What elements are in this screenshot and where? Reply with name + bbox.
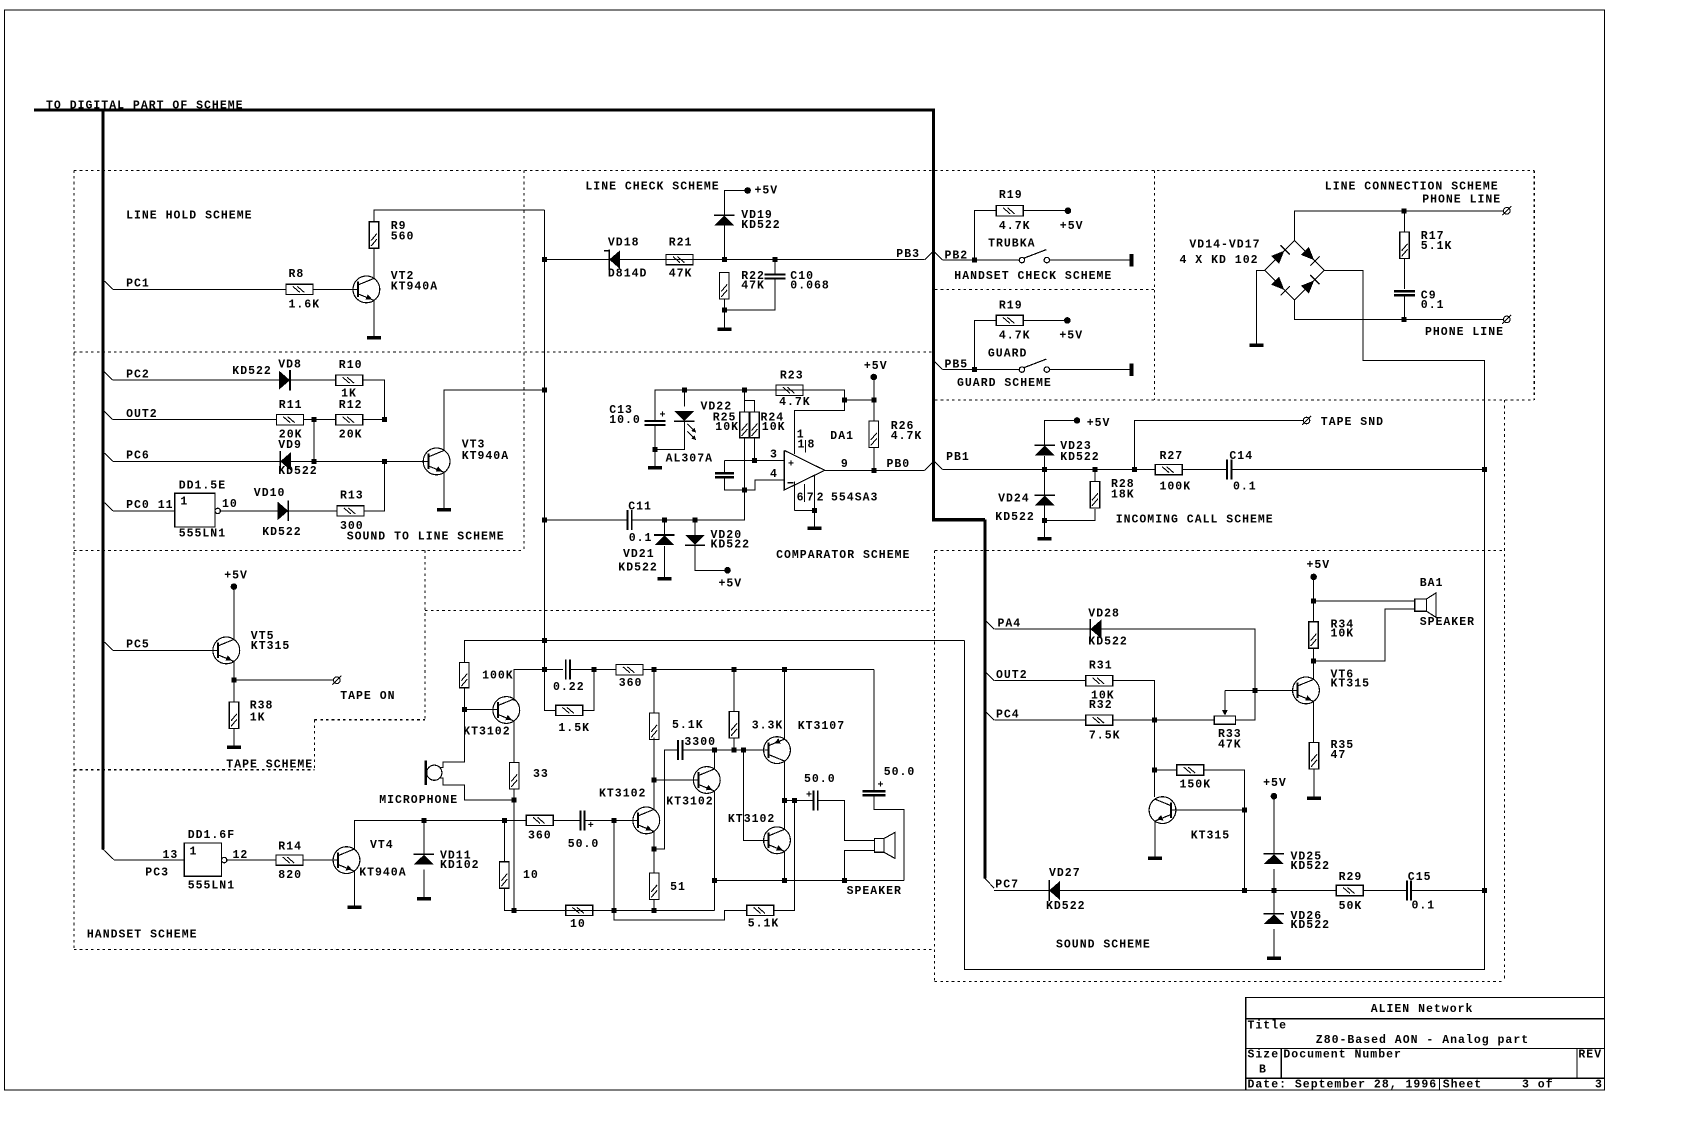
resistor R31 [1086, 659, 1115, 702]
svg-text:DD1.5E: DD1.5E [179, 479, 226, 492]
svg-text:SPEAKER: SPEAKER [847, 885, 902, 898]
wire VD28 to VT6 base node [1101, 629, 1258, 693]
svg-text:ALIEN Network: ALIEN Network [1371, 1003, 1474, 1016]
diode VD9 [278, 439, 318, 478]
svg-text:1: 1 [180, 496, 188, 509]
resistor 51 [650, 873, 686, 900]
label PHONE LINE bottom [1425, 326, 1504, 339]
wire C15 to right column [1411, 888, 1487, 893]
terminal phone line top [1502, 206, 1511, 215]
wire PC3 to gate DD1.6F [114, 849, 184, 862]
wire tape-on output [234, 679, 334, 681]
wire base node to KT3102pre [464, 709, 498, 711]
svg-text:2: 2 [817, 492, 825, 505]
resistor 10 horizontal [566, 905, 593, 931]
wire amp row continues [643, 667, 872, 672]
svg-text:PB0: PB0 [887, 458, 911, 471]
ground VD21 [657, 577, 671, 581]
svg-text:+5V: +5V [1087, 417, 1111, 430]
wire R25 top lead [744, 390, 746, 412]
svg-text:554SA3: 554SA3 [831, 492, 878, 505]
wire bridge left to ground [1257, 270, 1265, 343]
svg-text:VD21: VD21 [623, 548, 655, 561]
transistor KT3107 [764, 720, 846, 763]
svg-text:KD522: KD522 [232, 365, 272, 378]
svg-text:560: 560 [391, 230, 415, 243]
node OUT2 right label [996, 669, 1028, 682]
svg-text:R32: R32 [1089, 699, 1113, 712]
resistor R22 [720, 270, 765, 299]
resistor 360 amp [616, 665, 643, 690]
wire R22 to ground node [722, 299, 727, 327]
wire gate DD1.5E to VD10 [220, 510, 278, 512]
resistor R14 [276, 840, 303, 882]
scheme label HANDSET SCHEME [87, 929, 198, 942]
svg-text:C14: C14 [1229, 450, 1253, 463]
svg-text:C11: C11 [628, 501, 652, 514]
svg-text:47K: 47K [669, 267, 693, 280]
wire 3300 base row [682, 748, 768, 753]
wire comparator top rail [655, 388, 845, 421]
power +5V VD19 [744, 185, 778, 198]
wire PC0 to gate DD1.5E [113, 510, 175, 512]
wire pin 3 [724, 449, 784, 464]
svg-text:VD10: VD10 [254, 487, 286, 500]
wire VD25 bottom [1273, 869, 1275, 891]
svg-text:KT3102: KT3102 [666, 795, 713, 808]
wire base node down to PC7 line [1243, 810, 1245, 890]
wire row C to speaker row [713, 881, 715, 911]
wire R34 bottom [1313, 648, 1315, 661]
transistor KT3102c bottom right [728, 813, 790, 854]
svg-text:KT940A: KT940A [359, 867, 406, 880]
svg-text:PHONE LINE: PHONE LINE [1425, 326, 1504, 339]
wire R12 to right column [363, 417, 387, 422]
ground C13 [648, 466, 662, 470]
bus trunk jog horizontal [932, 518, 985, 521]
wire OUT2 to R31 [994, 680, 1085, 682]
wire VD21 to ground [663, 546, 665, 577]
wire VD23 bottom [1044, 456, 1046, 470]
wire VT4 collector to audio row [355, 820, 424, 849]
bus trunk lower vertical [983, 520, 986, 879]
svg-text:100K: 100K [482, 670, 514, 683]
svg-text:10: 10 [570, 918, 586, 931]
power +5V VD20 [719, 567, 743, 591]
capacitor C9 [1394, 289, 1445, 312]
svg-text:50.0: 50.0 [804, 773, 836, 786]
wire OUT2 to R11 [113, 419, 277, 421]
svg-text:VD8: VD8 [278, 358, 302, 371]
svg-text:R19: R19 [999, 189, 1023, 202]
resistor R11 [276, 399, 303, 441]
resistor 1.5K bypass loop [545, 670, 595, 735]
wire mic emitter column [512, 797, 517, 913]
svg-text:KD522: KD522 [618, 561, 658, 574]
wire R27 to C14 [1182, 469, 1227, 471]
svg-text:6: 6 [797, 492, 805, 505]
wire VD19 to PB3 line [723, 226, 725, 260]
bus entry slant PC5 [105, 642, 113, 650]
wire 10 vertical top lead [503, 820, 505, 861]
wire VD20 to +5V [695, 545, 728, 570]
wire amp input row [514, 667, 596, 672]
speaker handset [847, 832, 902, 898]
svg-text:3: 3 [770, 449, 778, 462]
svg-text:GUARD: GUARD [988, 347, 1028, 360]
wire PB5 to switch [943, 367, 1019, 372]
diode VD21 [618, 535, 674, 574]
svg-text:KT3102: KT3102 [599, 788, 646, 801]
diode VD10 [254, 487, 302, 539]
svg-text:1K: 1K [250, 712, 266, 725]
wire R25 bottom to minus node [744, 438, 746, 490]
title block REV label [1578, 1049, 1602, 1062]
wire R19 guard to +5V [1023, 319, 1067, 321]
svg-text:10K: 10K [1331, 627, 1355, 640]
wire VT3 emitter to ground [443, 472, 445, 508]
svg-text:R27: R27 [1160, 450, 1184, 463]
wire R24 bottom to plus wire [754, 438, 756, 461]
scheme label LINE CONNECTION SCHEME [1325, 181, 1499, 194]
wire R35 to ground [1313, 769, 1315, 797]
gate DD1.6F 555LN1 inverter [184, 829, 248, 893]
title block schematic title [1316, 1034, 1529, 1047]
transistor VT2 [353, 270, 438, 303]
resistor R12 [336, 399, 363, 441]
svg-text:+5V: +5V [755, 185, 779, 198]
wire KT3102a collector [652, 778, 657, 810]
bus entry slant PA4 [986, 621, 994, 629]
ground VT2 [367, 336, 381, 340]
title block company name [1371, 1003, 1474, 1016]
svg-text:KD522: KD522 [1088, 635, 1128, 648]
ground R35 [1307, 797, 1321, 801]
wire VD8 to R10 [290, 379, 336, 381]
bus entry slant PC4 [986, 712, 994, 720]
svg-text:1.6K: 1.6K [289, 298, 321, 311]
wire C10 bottom to ground node [724, 279, 775, 311]
svg-text:LINE CHECK SCHEME: LINE CHECK SCHEME [585, 181, 719, 194]
svg-text:R8: R8 [289, 268, 305, 281]
capacitor 50.0 left [804, 773, 836, 810]
wire PC1 to R8 [113, 288, 286, 290]
resistor R8 [286, 268, 320, 311]
node PC0 pin 11 label [126, 499, 173, 512]
wire 5.1K right lead up [774, 800, 795, 910]
svg-text:KD522: KD522 [262, 526, 302, 539]
svg-text:KT3107: KT3107 [798, 720, 845, 733]
wire R11 to R12 [303, 417, 335, 422]
terminal TAPE SND [1302, 416, 1384, 429]
resistor 100K [460, 662, 514, 687]
svg-text:10K: 10K [715, 421, 739, 434]
diode VD27 [1046, 867, 1086, 913]
svg-text:0.1: 0.1 [1233, 481, 1257, 494]
wire PC4 to R32 [994, 719, 1085, 721]
wire R32 to pot node [1113, 718, 1215, 723]
svg-text:D814D: D814D [608, 267, 648, 280]
bus entry slant OUT2 right [986, 672, 994, 680]
wire PB3 line [545, 257, 925, 262]
wire R17 to C9 [1404, 259, 1406, 290]
bus entry slant PB1 [935, 461, 943, 469]
power +5V VD25 [1263, 777, 1287, 799]
svg-text:555LN1: 555LN1 [179, 527, 226, 540]
svg-text:PB1: PB1 [946, 451, 970, 464]
ground VD26 [1267, 956, 1281, 960]
svg-text:47: 47 [1331, 749, 1347, 762]
svg-text:Z80-Based AON - Analog part: Z80-Based AON - Analog part [1316, 1034, 1529, 1047]
svg-text:33: 33 [533, 768, 549, 781]
wire tape snd branch [1134, 421, 1303, 470]
wire VT6 emitter to R35 [1313, 701, 1315, 742]
svg-text:20K: 20K [339, 428, 363, 441]
svg-text:1: 1 [190, 846, 198, 859]
wire gate DD1.6F to R14 [226, 859, 276, 861]
bus trunk top horizontal [34, 108, 935, 111]
microphone BM1 [379, 761, 458, 808]
wire VD22 bottom [655, 421, 684, 449]
svg-text:KD522: KD522 [995, 511, 1035, 524]
svg-text:50.0: 50.0 [884, 766, 916, 779]
svg-text:820: 820 [278, 869, 302, 882]
capacitor C14 [1227, 450, 1257, 494]
ground bridge [1250, 343, 1264, 347]
svg-text:C15: C15 [1408, 871, 1432, 884]
wire audio rail [465, 639, 964, 641]
svg-text:PC0 11: PC0 11 [126, 499, 173, 512]
resistor R13 [337, 490, 364, 534]
terminator guard [1129, 363, 1133, 376]
svg-text:5.1K: 5.1K [1421, 240, 1453, 253]
svg-text:0.1: 0.1 [629, 532, 653, 545]
wire node to pin 1 [795, 400, 845, 454]
bus entry slant PC6 [105, 453, 113, 461]
svg-text:360: 360 [619, 677, 643, 690]
svg-text:R19: R19 [999, 300, 1023, 313]
wire C14 to right column [1232, 467, 1488, 472]
wire row C [512, 909, 714, 911]
svg-text:+: + [660, 411, 667, 422]
svg-text:R31: R31 [1089, 659, 1113, 672]
diode VD28 [1088, 608, 1128, 649]
bus entry slant PC1 [105, 281, 113, 289]
svg-text:1: 1 [798, 439, 806, 452]
resistor 5.1K mid [650, 713, 704, 740]
wire +5V to R34 [1311, 577, 1316, 622]
wire row A junction down to row C [612, 820, 617, 913]
bus entry slant OUT2 left [105, 411, 113, 419]
svg-text:100K: 100K [1160, 481, 1192, 494]
bus entry slant PC2 [105, 372, 113, 380]
svg-text:4 X KD 102: 4 X KD 102 [1180, 254, 1259, 267]
svg-text:3300: 3300 [684, 736, 716, 749]
resistor R24 [750, 411, 786, 437]
terminal phone line bottom [1502, 315, 1511, 324]
svg-text:PC5: PC5 [126, 639, 150, 652]
svg-text:TAPE ON: TAPE ON [340, 690, 395, 703]
svg-text:50.0: 50.0 [568, 838, 600, 851]
svg-text:R14: R14 [278, 840, 302, 853]
svg-text:R10: R10 [339, 359, 363, 372]
wire 50cap to speaker top [818, 800, 875, 840]
power +5V VD23 [1074, 417, 1111, 430]
transistor KT315 sound [1149, 797, 1230, 843]
svg-text:PB3: PB3 [896, 248, 920, 261]
wire 3.3K top [733, 670, 735, 712]
ground VD11 [417, 897, 431, 901]
wire +5V to node [873, 377, 875, 400]
diode VD23 [1035, 440, 1100, 464]
resistor R27 [1155, 450, 1191, 494]
wire VT2 collector to R9 [373, 248, 375, 278]
bus entry slant PB2 [935, 252, 943, 260]
wire VT3 collector to comparator column [444, 390, 544, 450]
svg-text:10K: 10K [762, 421, 786, 434]
resistor R10 [336, 359, 363, 401]
wire pot right to base node [1235, 690, 1255, 720]
wire row D jog [614, 910, 747, 919]
terminator handset check [1129, 254, 1133, 267]
bus exit PC7 label [995, 878, 1019, 891]
resistor R23 [776, 369, 811, 409]
svg-text:VD27: VD27 [1049, 867, 1081, 880]
bus entry slant PC0 [105, 503, 113, 511]
potentiometer R33 [1214, 690, 1242, 751]
wire +5V to VD19 [724, 191, 747, 216]
wire VD23 to +5V [1045, 421, 1077, 446]
svg-text:47K: 47K [1218, 738, 1242, 751]
wire R8 to VT2 base [313, 288, 358, 290]
svg-text:555LN1: 555LN1 [188, 879, 235, 892]
wire speaker row [714, 880, 904, 882]
svg-text:4.7K: 4.7K [891, 430, 923, 443]
resistor R19 guard [996, 300, 1030, 343]
wire PC2 to VD8 [113, 379, 280, 381]
svg-text:HANDSET CHECK SCHEME: HANDSET CHECK SCHEME [954, 270, 1112, 283]
wire VD22 top [683, 390, 685, 406]
node PC5 label [126, 639, 150, 652]
svg-text:18K: 18K [1111, 489, 1135, 502]
terminal TAPE ON [332, 676, 395, 703]
svg-text:R13: R13 [340, 490, 364, 503]
svg-text:7: 7 [807, 492, 815, 505]
wire R10 to right column [363, 380, 385, 420]
svg-text:R23: R23 [780, 369, 804, 382]
transistor KT3102b mid [666, 767, 720, 809]
node PC6 label [126, 450, 150, 463]
wire VD9 junction drop [313, 420, 315, 462]
svg-text:PC7: PC7 [995, 878, 1019, 891]
wire guard switch to terminator [1050, 369, 1130, 371]
power +5V sound [1307, 559, 1331, 580]
bus exit slant PC3 [103, 849, 114, 860]
diode VD24 [995, 493, 1055, 525]
wire VT2 emitter to ground [373, 300, 375, 336]
svg-text:Date: September 28, 1996: Date: September 28, 1996 [1248, 1079, 1438, 1092]
ground VD24 [1038, 537, 1052, 541]
capacitor 0.22 [553, 660, 585, 695]
wire audio row A [424, 818, 526, 823]
title block sheet [1443, 1079, 1603, 1092]
resistor 33 [510, 763, 549, 790]
wire KT3102c emitter [782, 851, 787, 883]
scheme label SOUND TO LINE SCHEME [347, 531, 505, 544]
svg-text:VD18: VD18 [608, 236, 640, 249]
capacitor C13 [609, 404, 666, 427]
svg-text:+5V: +5V [1307, 559, 1331, 572]
svg-text:B: B [1259, 1064, 1267, 1077]
svg-text:PHONE LINE: PHONE LINE [1422, 193, 1501, 206]
wire 3300 left to KT3102a emitter [654, 750, 678, 849]
svg-text:+5V: +5V [1060, 220, 1084, 233]
svg-text:MICROPHONE: MICROPHONE [379, 794, 458, 807]
wire VT4 emitter to ground [354, 871, 356, 905]
svg-text:300: 300 [340, 520, 364, 533]
switch GUARD [988, 347, 1050, 372]
title block frame [1246, 997, 1605, 1090]
resistor R19 handset [996, 189, 1030, 233]
wire PB2 node up to R19 [975, 211, 997, 260]
ground KT315 [1148, 856, 1162, 860]
wire speaker bottom [1314, 609, 1415, 661]
svg-text:KD102: KD102 [440, 859, 480, 872]
wire C10 top [774, 260, 776, 275]
svg-text:KT3102: KT3102 [463, 726, 510, 739]
resistor R34 [1309, 618, 1354, 648]
wire R24 top jog [745, 401, 755, 413]
node PB0 label [887, 458, 911, 471]
speaker BA1 [1415, 577, 1475, 629]
wire bridge right to incoming line [1324, 270, 1484, 469]
node PA4 label [998, 618, 1022, 631]
bus trunk right vertical [932, 110, 935, 521]
wire R31 to PC4 node [1113, 681, 1155, 720]
diode VD26 [1264, 910, 1330, 932]
svg-text:AL307A: AL307A [666, 453, 713, 466]
wire VT6 collector [1311, 659, 1316, 680]
svg-text:R11: R11 [279, 399, 303, 412]
svg-text:+: + [788, 460, 795, 471]
wire 5.1K mid bottom to KT3102b base [653, 737, 655, 780]
wire R9 top to comparator column [374, 210, 545, 222]
svg-text:0.22: 0.22 [553, 681, 585, 694]
svg-text:VD24: VD24 [998, 493, 1030, 506]
gate DD1.5E 555LN1 inverter [175, 479, 238, 540]
svg-text:KT940A: KT940A [391, 280, 438, 293]
svg-text:KT315: KT315 [251, 640, 291, 653]
wire minus node to C11 line [695, 490, 745, 520]
resistor R38 [229, 700, 273, 729]
ground R22 [717, 327, 731, 331]
wire base column to KT3102c [744, 750, 769, 840]
bus trunk left vertical [101, 110, 104, 849]
svg-text:5.1K: 5.1K [672, 719, 704, 732]
switch TRUBKA [988, 238, 1049, 263]
wire rail right corner [963, 639, 965, 642]
svg-text:1.5K: 1.5K [558, 722, 590, 735]
wire PB2 to switch [943, 258, 1019, 263]
transistor VT4 [333, 839, 407, 880]
scheme label GUARD SCHEME [957, 377, 1052, 390]
node PB3 label [896, 248, 920, 261]
resistor R35 [1309, 739, 1354, 769]
svg-text:51: 51 [670, 881, 686, 894]
wire VD26 top [1273, 891, 1275, 914]
wire PC4 node down to 150K [1152, 720, 1157, 772]
svg-text:VD28: VD28 [1088, 608, 1120, 621]
